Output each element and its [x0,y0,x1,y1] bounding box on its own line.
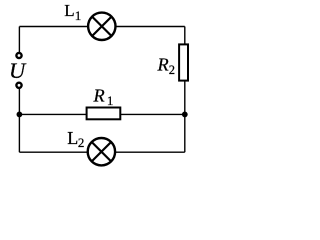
wire middle branch [19,113,184,115]
wire left rail lower [18,85,20,152]
svg-text:R: R [93,86,105,106]
wire bottom horizontal [19,151,184,153]
terminal lower of source U [16,83,21,88]
resistor R1 [87,108,121,120]
svg-text:L: L [67,128,78,148]
wire top horizontal [19,26,184,28]
resistor R2 [179,44,188,80]
lamp L1 [88,13,115,40]
lamp L2 [88,138,115,165]
junction node right [182,112,188,118]
wire right rail [184,27,186,153]
svg-text:U: U [9,58,27,83]
svg-text:L: L [64,1,74,20]
wire left rail upper [18,27,20,56]
svg-text:R: R [157,55,169,75]
terminal upper of source U [16,53,21,58]
svg-text:2: 2 [78,135,85,150]
svg-text:1: 1 [75,8,82,23]
svg-text:2: 2 [169,63,175,77]
svg-text:1: 1 [107,93,114,108]
junction node left [17,112,23,118]
